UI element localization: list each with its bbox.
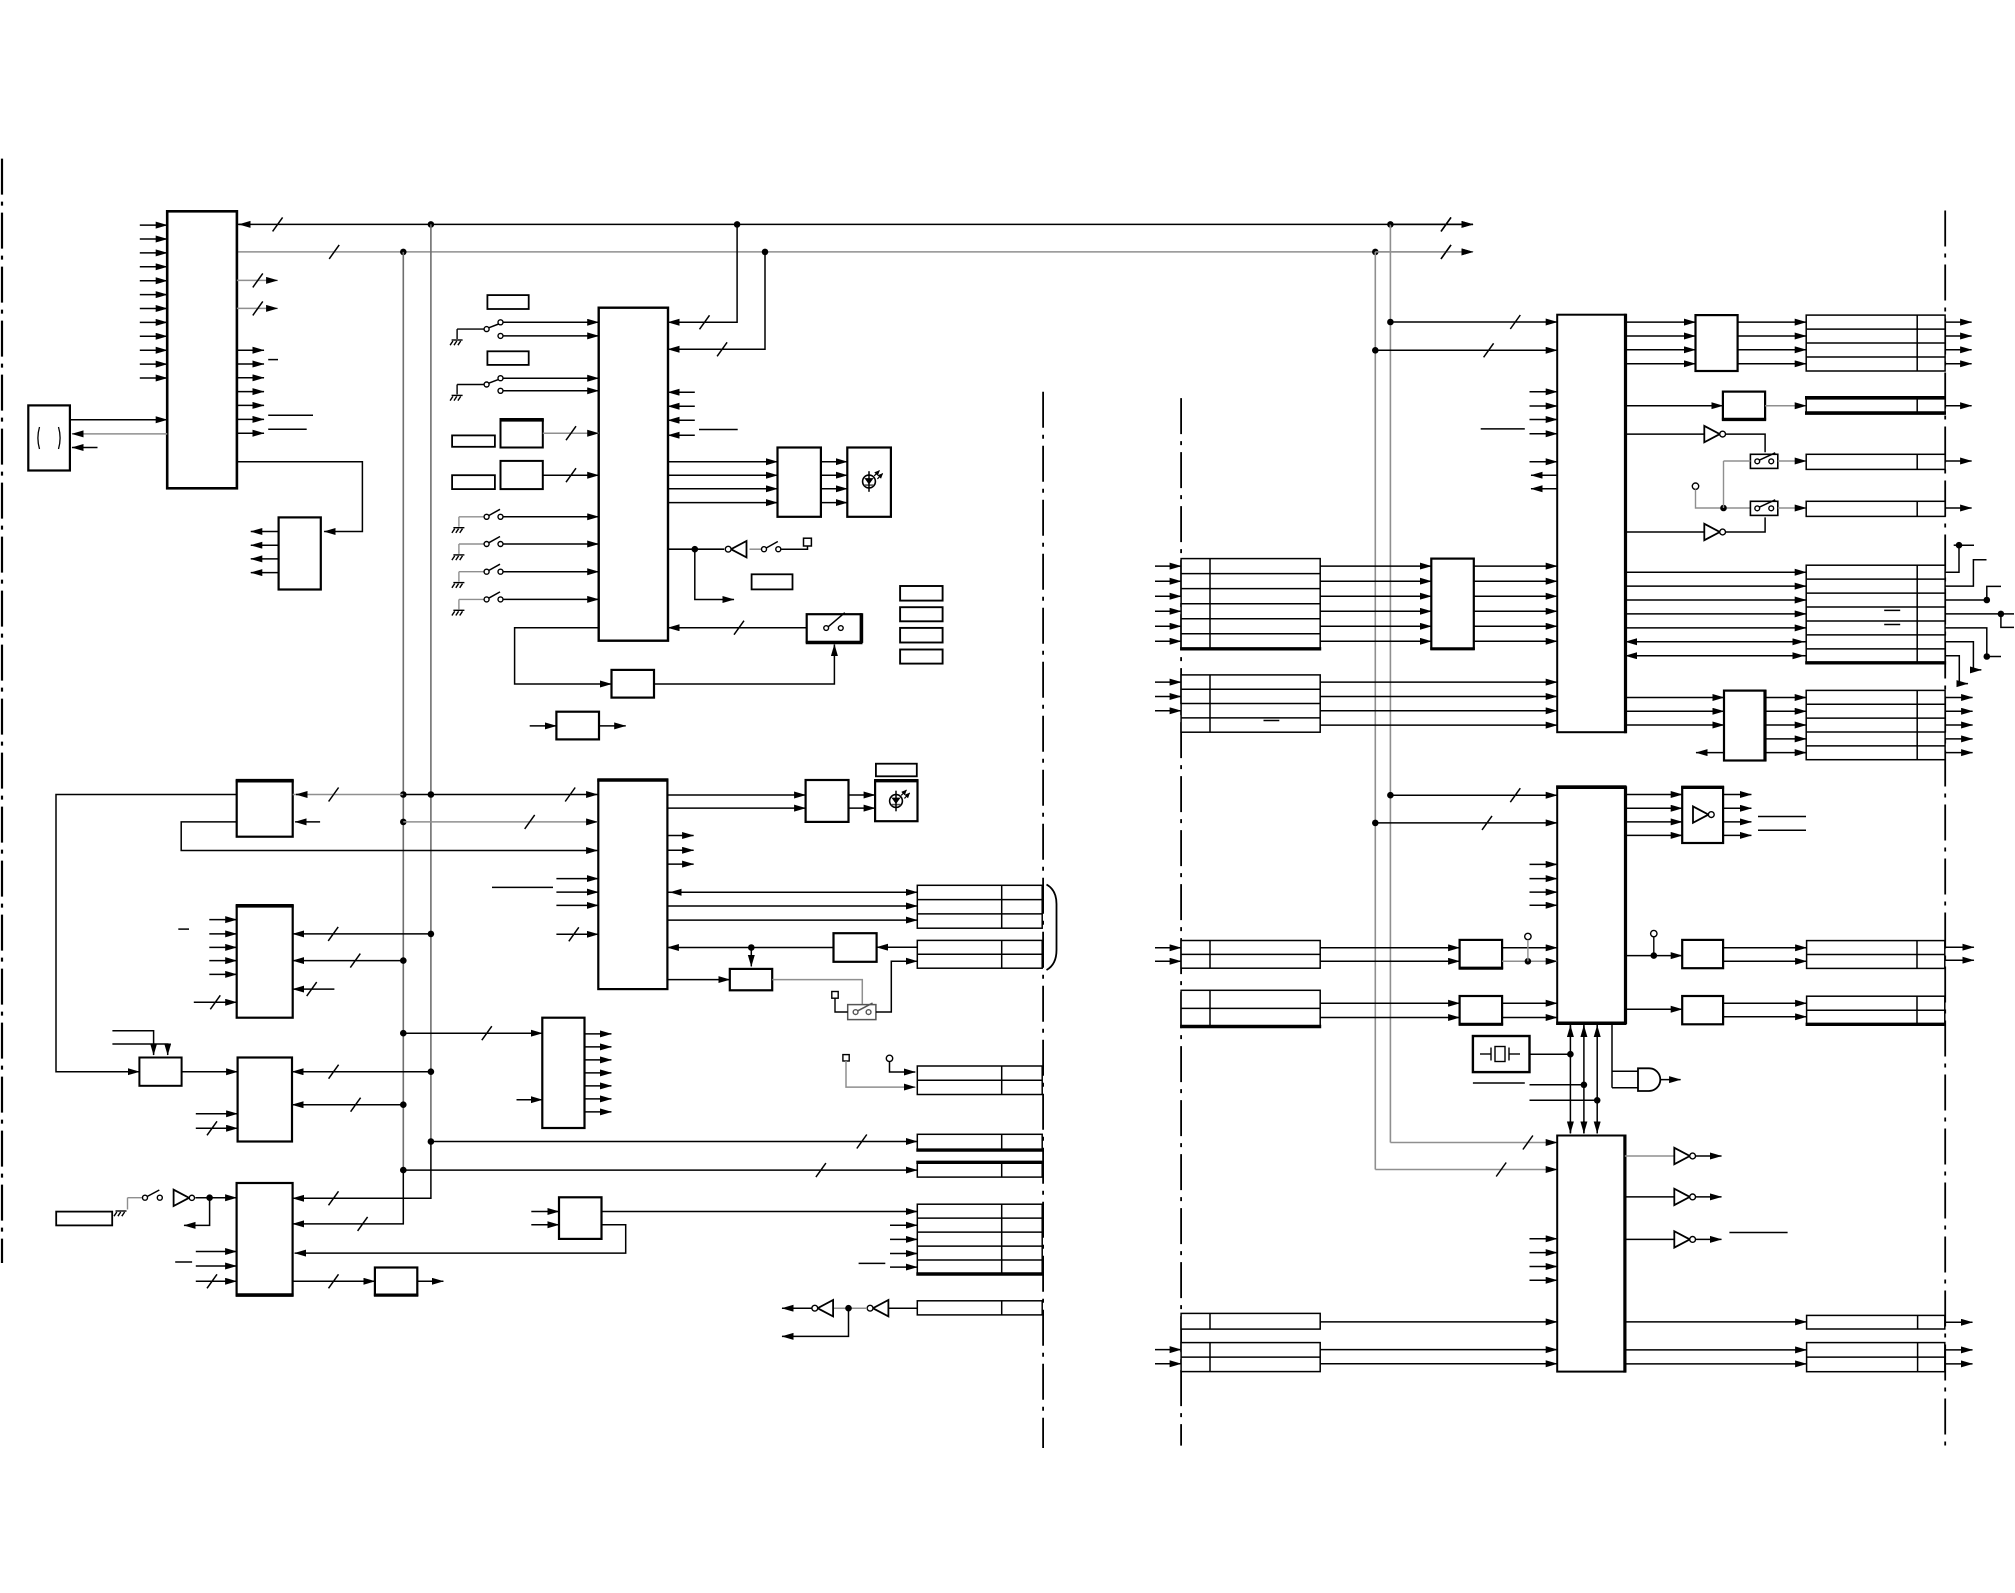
wire B29 to CN16 2 bbox=[1765, 724, 1806, 726]
wire B18 out 5 bbox=[585, 1098, 612, 1100]
LED2 box bbox=[875, 781, 917, 822]
wire bus into IC6 bbox=[556, 933, 598, 935]
small box above LED2 bbox=[876, 764, 917, 777]
wire CN16 out 2 bbox=[1945, 724, 1973, 726]
wire B11 out bbox=[599, 725, 626, 727]
wire CN24 out b bbox=[1945, 1363, 1973, 1365]
wire into CN9 row3 bbox=[1155, 610, 1181, 612]
connector CN24 bbox=[1807, 1343, 1945, 1372]
inverter U10 bbox=[1674, 1189, 1690, 1205]
wire circle to CN8 bbox=[890, 1062, 916, 1072]
wire B33 to IC9 b bbox=[1502, 1017, 1557, 1019]
wire IC1 input pin 12 bbox=[140, 377, 167, 379]
IC6 servo processor bbox=[598, 780, 667, 989]
wire V431 to B5 bbox=[293, 933, 431, 935]
wire CN11 out 2 bbox=[1945, 349, 1972, 351]
wire B13 to LED2 a bbox=[849, 794, 876, 796]
wire stub into IC10 3 bbox=[1530, 1279, 1558, 1281]
switch SW-F bbox=[459, 598, 484, 600]
wire IC6-CN2 row2 bbox=[667, 905, 917, 907]
wire CN15 r4 jog bbox=[1945, 614, 2014, 628]
wire IC3 to IC4 bit0 bbox=[668, 461, 778, 463]
wire IC8 out stub b bbox=[1531, 488, 1557, 490]
bus vertical V1375 (gray) bbox=[1374, 252, 1376, 1170]
wire IC3 to IC4 bit1 bbox=[668, 474, 778, 476]
switch SW-C bbox=[459, 516, 484, 518]
wire IC6 to IC-B13 b bbox=[667, 807, 805, 809]
wire B29 to CN16 0 bbox=[1765, 697, 1806, 699]
IC9 audio processor bbox=[1557, 786, 1625, 1024]
wire IC1 input pin 5 bbox=[140, 280, 167, 282]
wire IC9 to B34 0 bbox=[1626, 794, 1683, 796]
label line bbox=[178, 928, 189, 930]
bus vertical V403 tail into IC7 bbox=[293, 1170, 404, 1224]
wire IC6 to IC-B13 a bbox=[667, 794, 805, 796]
wire bus into B43 bbox=[196, 1280, 237, 1282]
wire CN22 to IC10 b bbox=[1320, 1363, 1557, 1365]
wire CN22 to IC10 a bbox=[1320, 1349, 1557, 1351]
switch SW-G bbox=[762, 547, 767, 552]
connector table CN10 bbox=[1181, 675, 1320, 732]
connector table CN15 bbox=[1806, 565, 1945, 663]
bus wire top (gray) from IC1 to right end bbox=[237, 251, 1473, 253]
wire CN10 to IC8 row3 bbox=[1320, 724, 1557, 726]
wire L2 to CN5 bbox=[403, 1169, 917, 1171]
wire IC6-CN2 row1 bidir bbox=[667, 891, 917, 893]
wire stub into IC10 1 bbox=[1530, 1252, 1558, 1254]
wire IC1 gray out A bbox=[237, 279, 278, 281]
wire B44 out bbox=[417, 1280, 443, 1282]
wire CN9 to B21 row3 bbox=[1320, 610, 1431, 612]
wire into CN9 row4 bbox=[1155, 625, 1181, 627]
wire IC8 to CN15 row1 bbox=[1626, 585, 1807, 587]
wire U9 out bbox=[1696, 1155, 1722, 1157]
buffer U2 bbox=[174, 1190, 190, 1206]
IC-B21 buffer bbox=[1431, 559, 1474, 649]
bus vertical V403 bbox=[402, 252, 404, 1170]
bus vertical V431 tail into IC7 bbox=[293, 1142, 431, 1199]
wire CN19 out a bbox=[1945, 946, 1974, 948]
wire U1 to SW-G (gray) bbox=[750, 548, 762, 550]
wire B21 to IC8 row0 bbox=[1474, 565, 1557, 567]
wire V1375 turn to IC10 (gray) bbox=[1375, 1169, 1557, 1171]
wire stub into IC9 1 bbox=[1530, 878, 1558, 880]
wire CN9 to B21 row2 bbox=[1320, 595, 1431, 597]
connector CN23 bbox=[1807, 1315, 1945, 1329]
wire into CN9 row1 bbox=[1155, 580, 1181, 582]
wire B34 out 1 bbox=[1723, 807, 1751, 809]
wire V1390 to IC8 bbox=[1390, 321, 1557, 323]
wire stub into B4 a bbox=[196, 1113, 238, 1115]
wire stub into IC9 0 bbox=[1530, 863, 1558, 865]
wire stub into IC9 3 bbox=[1530, 904, 1558, 906]
wire CN17 to B32 b bbox=[1320, 960, 1459, 962]
wire CN19 out b bbox=[1945, 959, 1974, 961]
IC-B29 box bbox=[1724, 691, 1765, 761]
wire B2 to IC-B3 long loop bbox=[56, 795, 237, 1072]
IC-B4 box bbox=[238, 1058, 292, 1142]
wire IC10 to CN24 a bbox=[1625, 1349, 1807, 1351]
wire stub into IC8 3 bbox=[1530, 433, 1558, 435]
wire CN14 out bbox=[1945, 507, 1972, 509]
wire SW5 to CN14 (gray) bbox=[1778, 507, 1806, 509]
wire B18 out 3 bbox=[585, 1072, 612, 1074]
IC2 sub decoder bbox=[279, 517, 321, 589]
wire CN15 r3 jog bbox=[1945, 586, 2001, 600]
wire SW-A out2 bbox=[503, 335, 598, 337]
wire into CN17 b bbox=[1155, 960, 1181, 962]
wire SW-A out1 bbox=[503, 321, 598, 323]
wire IC9 to B37 bbox=[1626, 1008, 1683, 1010]
label line bbox=[1729, 1232, 1787, 1234]
terminal circle bbox=[1692, 483, 1698, 489]
wire IC8 to B24 bbox=[1626, 405, 1723, 407]
switch box SW5 bbox=[1750, 501, 1777, 515]
wire CN11 out 3 bbox=[1945, 363, 1972, 365]
connector CN21 bbox=[1181, 1313, 1320, 1329]
ground at B45 bbox=[114, 1211, 127, 1216]
wire into CN10 row1 bbox=[1155, 696, 1181, 698]
connector CN12 (thick) bbox=[1806, 398, 1945, 413]
wire IC1 input pin 3 bbox=[140, 252, 167, 254]
wire SW4 to CN13 (gray) bbox=[1778, 460, 1806, 462]
pullup circle B32 bbox=[1525, 933, 1531, 939]
wire IC1 output 5 bbox=[237, 404, 264, 406]
label line bbox=[1758, 816, 1806, 818]
wire SW1 to IC3 bbox=[668, 627, 807, 629]
IC1 main controller bbox=[167, 211, 237, 488]
wire bus B2-IC6 (gray seg) bbox=[293, 794, 404, 796]
fold line center-right bbox=[1180, 398, 1182, 1446]
wire stub into CN6 2 bbox=[890, 1253, 917, 1255]
wire B37 to CN20 b bbox=[1723, 1016, 1807, 1018]
wire CN15 r2 jog bbox=[1945, 560, 1986, 586]
wire stub into IC8 e bbox=[1530, 461, 1558, 463]
wire IC1 output 3 bbox=[237, 377, 264, 379]
label line in CN15 bbox=[1884, 624, 1900, 626]
wire IC3 remote line bbox=[668, 548, 724, 550]
jack terminal square bbox=[804, 538, 812, 546]
wire U3 out bbox=[782, 1307, 812, 1309]
wire branch down arrow bbox=[695, 549, 734, 599]
crystal symbol bbox=[1480, 1053, 1491, 1055]
wire IC5 to SW1 bbox=[654, 645, 834, 685]
wire into CN9 row0 bbox=[1155, 565, 1181, 567]
label line under X3 bbox=[1473, 1082, 1525, 1084]
connector CN13 bbox=[1806, 454, 1945, 469]
small box B45 bbox=[56, 1212, 112, 1226]
wire CN15 r1 jog bbox=[1945, 545, 1974, 572]
wire terminal to SW5 (gray) bbox=[1696, 489, 1751, 508]
wire stub into IC6 2 bbox=[556, 904, 598, 906]
wire IC2 output 1 bbox=[251, 531, 279, 533]
switch SW-D bbox=[459, 543, 484, 545]
wire IC10 to CN24 b bbox=[1625, 1363, 1807, 1365]
small box bbox=[752, 574, 793, 589]
crystal X3 box bbox=[1473, 1036, 1530, 1072]
wire U8 out bbox=[1660, 1079, 1680, 1081]
wire IC1 input pin 1 bbox=[140, 224, 167, 226]
wire B21 to IC8 row5 bbox=[1474, 640, 1557, 642]
IC-B19 box bbox=[559, 1197, 602, 1239]
connector CN22 bbox=[1181, 1343, 1320, 1372]
wire B13 to LED2 b bbox=[849, 807, 876, 809]
wire B21 to IC8 row1 bbox=[1474, 580, 1557, 582]
wire stub into B19 b bbox=[531, 1224, 559, 1226]
wire IC1 input pin 11 bbox=[140, 363, 167, 365]
connector CN7 bbox=[917, 1301, 1042, 1315]
connector CN4 bbox=[917, 1134, 1042, 1150]
page border fold line left bbox=[1, 159, 3, 1263]
wire CN21 to IC10 bbox=[1320, 1321, 1557, 1323]
wire V1390 turn to IC10 (gray) bbox=[1390, 1142, 1557, 1144]
wire branch left arrow bbox=[184, 1198, 210, 1226]
wire CN9 to B21 row5 bbox=[1320, 640, 1431, 642]
switch SW-E bbox=[459, 571, 484, 573]
wire into CN10 row2 bbox=[1155, 710, 1181, 712]
wire IC6 out stub 1 bbox=[667, 849, 693, 851]
wire L1 to CN4 bbox=[431, 1141, 917, 1143]
wire CN18 to B33 b bbox=[1320, 1017, 1459, 1019]
small box stack 4 bbox=[900, 650, 943, 664]
wire stub into CN6 0 bbox=[890, 1224, 917, 1226]
wire IC6-CN2 row3 bbox=[667, 919, 917, 921]
wire into CN17 a bbox=[1155, 947, 1181, 949]
wire V1375 to IC8 bbox=[1375, 349, 1557, 351]
wire IC8 to CN15 row4 bbox=[1626, 627, 1807, 629]
wire IC1 input pin 2 bbox=[140, 238, 167, 240]
wire IC1 input pin 7 bbox=[140, 308, 167, 310]
wire IC1 gray out B bbox=[237, 307, 278, 309]
wire IC3 to IC4 bit2 bbox=[668, 488, 778, 490]
IC8 tuner controller bbox=[1557, 315, 1625, 733]
wire IC9 to B34 1 bbox=[1626, 807, 1683, 809]
wire IC8 to U5 bbox=[1626, 433, 1705, 435]
wire into B3 top a bbox=[112, 1031, 153, 1055]
wire SW2 to CN3 row2 bbox=[876, 961, 917, 1012]
wire B22 to CN11 2 bbox=[1738, 349, 1807, 351]
small box bbox=[487, 295, 528, 309]
wire into B11 bbox=[530, 725, 557, 727]
wire V1375 to IC9 bbox=[1375, 822, 1557, 824]
IC3 system controller bbox=[599, 308, 668, 641]
inverter U6 bbox=[1704, 524, 1720, 540]
wire U4 to U3 (gray) bbox=[833, 1307, 867, 1309]
wire IC6 out stub 0 bbox=[667, 835, 693, 837]
wire into CN22 b bbox=[1155, 1363, 1181, 1365]
inverter U3 bbox=[818, 1300, 834, 1316]
wire stub to riser c bbox=[1530, 1099, 1598, 1101]
wire into CN22 a bbox=[1155, 1349, 1181, 1351]
bus vertical V737 into IC3 bbox=[668, 224, 737, 322]
oscillator box X1 bbox=[501, 420, 543, 448]
wire CN23 out bbox=[1945, 1321, 1973, 1323]
switch SW-B bbox=[457, 384, 484, 386]
wire B33 to IC9 a bbox=[1502, 1002, 1557, 1004]
wire X2 to IC3 bbox=[543, 474, 599, 476]
wire IC4 to LED1 bit2 bbox=[821, 488, 847, 490]
wire SW-B out2 bbox=[503, 390, 598, 392]
wire stub into IC8 0 bbox=[1530, 391, 1558, 393]
wire B22 to CN11 0 bbox=[1738, 321, 1807, 323]
wire riser d to AND bbox=[1611, 1024, 1613, 1088]
wire B35 to CN19 b bbox=[1723, 960, 1807, 962]
LED1 display box bbox=[847, 448, 891, 517]
bus vertical V765 into IC3 bbox=[668, 252, 765, 349]
wire into CN9 row2 bbox=[1155, 595, 1181, 597]
IC-B32 box bbox=[1460, 940, 1503, 968]
IC-B37 box bbox=[1682, 996, 1723, 1024]
wire IC8 to CN15 row0 bbox=[1626, 571, 1807, 573]
IC-B24 box bbox=[1723, 392, 1765, 420]
wire CN17 to B32 a bbox=[1320, 947, 1459, 949]
wire IC8 to CN15 row2 bbox=[1626, 599, 1807, 601]
wire IC4 to LED1 bit1 bbox=[821, 474, 847, 476]
wire gray riser SW4-SW5 bbox=[1723, 461, 1725, 508]
wire stub into IC6 1 bbox=[556, 891, 598, 893]
terminal circle bottom bbox=[886, 1055, 892, 1061]
wire IC8 to U6 bbox=[1626, 531, 1705, 533]
wire B18 out 0 bbox=[585, 1033, 612, 1035]
wire B22 to CN11 1 bbox=[1738, 335, 1807, 337]
wire stub to riser b bbox=[1530, 1084, 1584, 1086]
wire CN7 to U4 bbox=[888, 1307, 917, 1309]
wire IC1 input pin 9 bbox=[140, 335, 167, 337]
wire B14 to SW2 bbox=[772, 980, 862, 1005]
wire IC1 input pin 8 bbox=[140, 321, 167, 323]
IC-B43 box bbox=[237, 1183, 293, 1295]
label line bbox=[1481, 428, 1525, 430]
wire IC8 to B29 1 bbox=[1626, 710, 1725, 712]
AND gate U8 bbox=[1638, 1068, 1660, 1091]
bus wire top (black) from IC1 to right end bbox=[237, 223, 1473, 225]
wire IC1 output 6 bbox=[237, 418, 264, 420]
bus vertical V1390 (gray) bbox=[1389, 224, 1391, 1142]
wire IC8 to B22 0 bbox=[1626, 321, 1696, 323]
wire CN15-IC8 row5 bidir bbox=[1626, 641, 1807, 643]
wire IC8 to B29 0 bbox=[1626, 697, 1725, 699]
wire stub into CN1 bbox=[72, 447, 98, 449]
connector table CN3 bbox=[917, 940, 1042, 968]
wire V431 to B4 bbox=[292, 1071, 431, 1073]
wire B18 out 2 bbox=[585, 1059, 612, 1061]
bus vertical V431 bbox=[430, 224, 432, 1141]
wire IC8 out stub a bbox=[1531, 474, 1557, 476]
label line bbox=[268, 414, 313, 416]
wire B18 out 6 bbox=[585, 1111, 612, 1113]
wire B34 out 2 bbox=[1723, 821, 1751, 823]
wire U10 out bbox=[1696, 1196, 1722, 1198]
wire CN9 to B21 row4 bbox=[1320, 625, 1431, 627]
wire B21 to IC8 row3 bbox=[1474, 610, 1557, 612]
label line bbox=[699, 429, 738, 431]
wire IC9 to B35 bbox=[1626, 955, 1683, 957]
wire into CN9 row5 bbox=[1155, 640, 1181, 642]
wire B29 out left bbox=[1696, 752, 1724, 754]
wire B29 to CN16 3 bbox=[1765, 738, 1806, 740]
wire IC1 input pin 4 bbox=[140, 266, 167, 268]
riser a IC9-IC10 bbox=[1569, 1025, 1571, 1134]
wire stub into IC3 bbox=[668, 434, 695, 436]
wire IC9 to B34 2 bbox=[1626, 821, 1683, 823]
wire IC10 to U10 bbox=[1625, 1196, 1674, 1198]
wire SW-D to IC3 bbox=[503, 543, 598, 545]
wire CN10 to IC8 row2 bbox=[1320, 710, 1557, 712]
IC-B16 box bbox=[834, 933, 877, 962]
wire CN9 to B21 row1 bbox=[1320, 580, 1431, 582]
IC-B34 buffer box bbox=[1682, 787, 1723, 843]
wire square to CN8 (gray) bbox=[846, 1061, 915, 1087]
wire IC1 to CN1 (gray) bbox=[72, 433, 167, 435]
wire IC1 to IC2 feedback bbox=[237, 462, 363, 532]
wire CN24 out a bbox=[1945, 1349, 1973, 1351]
wire B21 to IC8 row4 bbox=[1474, 625, 1557, 627]
wire CN12 out bbox=[1945, 405, 1972, 407]
wire IC10 to CN23 bbox=[1625, 1321, 1807, 1323]
wire stub into IC10 0 bbox=[1530, 1238, 1558, 1240]
connector table CN19 bbox=[1807, 941, 1945, 969]
small box bbox=[487, 351, 528, 365]
wire V403 to B5 bbox=[293, 960, 404, 962]
wire IC2 output 2 bbox=[251, 544, 279, 546]
connector CN5 bbox=[917, 1162, 1042, 1177]
wire U11 out bbox=[1696, 1238, 1722, 1240]
wire B43 to B44 bbox=[293, 1280, 375, 1282]
IC-B13 led driver bbox=[806, 780, 849, 822]
wire IC6 out stub 2 bbox=[667, 863, 693, 865]
wire stub into B5 4 bbox=[209, 973, 236, 975]
wire CN11 out 1 bbox=[1945, 335, 1972, 337]
wire CN10 to IC8 row1 bbox=[1320, 696, 1557, 698]
wire B34 out 3 bbox=[1723, 834, 1751, 836]
wire stub into IC10 2 bbox=[1530, 1266, 1558, 1268]
wire B19 to CN6 bbox=[602, 1211, 918, 1213]
wire SW-E to IC3 bbox=[503, 571, 598, 573]
wire stub into IC3 bbox=[668, 419, 695, 421]
connector table CN16 bbox=[1806, 690, 1945, 759]
riser c IC9-IC10 bbox=[1596, 1025, 1598, 1134]
wire X3 to riser bbox=[1530, 1053, 1571, 1055]
IC4 display driver bbox=[778, 448, 821, 517]
wire stub into IC3 bbox=[668, 405, 695, 407]
wire SW-F to IC3 bbox=[503, 598, 598, 600]
wire branch from U4 bbox=[782, 1308, 849, 1336]
wire gray V403 to IC6 bbox=[403, 821, 597, 823]
buffer U7 bbox=[1693, 806, 1709, 822]
wire stub into CN6 3 bbox=[890, 1266, 917, 1268]
wire B24 to CN12 (gray) bbox=[1765, 405, 1806, 407]
wire B37 to CN20 a bbox=[1723, 1002, 1807, 1004]
inverter U4 bbox=[873, 1300, 889, 1316]
wire CN15 r5 jog bbox=[1945, 628, 2001, 657]
wire stub into B19 a bbox=[531, 1211, 559, 1213]
label line in CN10 bbox=[1264, 720, 1280, 722]
label line in CN15 bbox=[1884, 609, 1900, 611]
wire IC8 to B22 3 bbox=[1626, 363, 1696, 365]
small box stack 1 bbox=[900, 586, 943, 601]
wire IC3 to IC4 bit3 bbox=[668, 502, 778, 504]
IC-B11 box bbox=[556, 712, 599, 740]
wire bus into B5 bbox=[194, 1001, 237, 1003]
inverter U11 bbox=[1674, 1231, 1690, 1247]
wire SW-G to jack bbox=[781, 546, 807, 549]
wire stub into B5 3 bbox=[209, 960, 236, 962]
connector CN8 bbox=[917, 1066, 1042, 1095]
wire into B3 top b bbox=[112, 1044, 167, 1055]
wire stub into CN6 1 bbox=[890, 1238, 917, 1240]
wire stub into IC9 2 bbox=[1530, 891, 1558, 893]
wire stub into B5 1 bbox=[209, 933, 236, 935]
